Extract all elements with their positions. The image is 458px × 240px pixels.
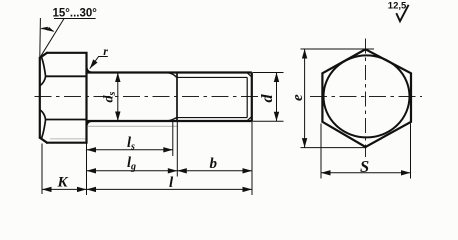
extension line bolt end down [251,121,253,195]
scan ghost line under shank [88,125,178,127]
label e [290,94,306,101]
head facet line lower [46,119,87,121]
label ls [127,135,135,152]
dimension lg [87,170,178,172]
hexagon center line vertical [365,39,367,158]
hexagon center line horizontal [310,96,422,98]
svg-text:r: r [103,44,108,58]
center line bolt axis [35,96,263,98]
svg-text:12,5: 12,5 [388,0,407,11]
svg-text:S: S [360,157,369,176]
tip chamfer line [247,73,252,121]
scan ghost line under head [50,138,86,140]
dimension b [177,170,252,172]
extension line under head [86,144,88,196]
label K [57,174,69,190]
dimension d extension lines [253,73,284,122]
surface roughness 12,5 [388,0,407,11]
dimension e extension lines [301,49,375,148]
angle dimension 15...30 [40,18,96,58]
label 15...30 [53,8,98,20]
label lg [127,155,136,172]
thread runout curves [168,73,177,121]
label S [360,157,369,176]
svg-text:ls: ls [127,135,135,152]
shank outline major diameter [87,73,252,122]
svg-text:ds: ds [102,92,118,103]
bolt tip end face [251,73,253,122]
dimension l [87,188,253,190]
label ds [102,92,118,103]
extension line thread boundary down [176,121,178,177]
thread boundary line [176,73,178,122]
roughness check symbol [396,5,408,21]
head chamfer arcs lower [40,110,46,139]
chamfer circle [324,55,410,137]
extension line ls end [172,121,174,156]
dimension e [304,49,306,148]
svg-text:15°...30°: 15°...30° [53,8,98,20]
svg-text:l: l [169,175,174,191]
dimension S [321,172,411,174]
svg-text:b: b [210,156,218,172]
dimension d [276,73,278,122]
dimension ls [87,149,173,151]
svg-text:d: d [259,94,276,103]
svg-text:K: K [57,174,69,190]
label l [169,175,174,191]
svg-text:e: e [290,94,306,101]
label r [103,44,108,58]
svg-text:lg: lg [127,155,136,172]
fillet under head [87,68,92,125]
dimension ds [117,73,119,122]
bolt head outline [40,53,87,143]
thread minor diameter lines [177,77,248,117]
label b [210,156,218,172]
leader r [90,57,108,69]
hexagon head end view [322,49,411,147]
extension line head left [41,144,43,195]
head chamfer arcs upper [40,57,46,86]
angle dimension arrowheads [41,27,55,32]
head facet line upper [46,75,87,77]
label d [259,94,276,103]
dimension S extension lines [321,124,411,179]
dimension K [42,188,87,190]
